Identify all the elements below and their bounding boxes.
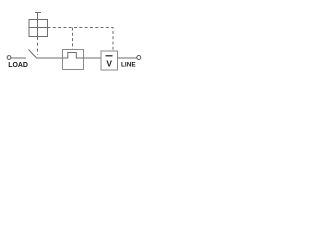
relay box K1: [63, 50, 84, 70]
cross inside U1: [29, 20, 48, 37]
svg-text:LINE: LINE: [121, 61, 136, 68]
voltmeter box P1: [101, 51, 118, 70]
LINE terminal circle: [137, 56, 141, 60]
dashed line U1 to voltmeter (with corner): [48, 28, 114, 52]
wire voltmeter to LINE: [118, 57, 137, 59]
svg-text:V: V: [106, 58, 112, 68]
clock receiver U1 (box with cross): [29, 20, 48, 37]
bar over V inside P1: [106, 55, 113, 57]
antenna terminal on U1: [35, 13, 41, 20]
wire relay to voltmeter: [84, 57, 102, 59]
svg-text:LOAD: LOAD: [8, 62, 28, 69]
wire LOAD to switch contact: [11, 57, 26, 59]
LOAD terminal circle: [7, 56, 11, 60]
switch S1 blade (open): [29, 50, 37, 59]
dashed control line U1 to switch: [37, 37, 39, 55]
wire switch to relay box: [36, 57, 63, 59]
pulse symbol inside K1: [63, 53, 84, 59]
dashed branch down to relay box: [72, 28, 74, 50]
